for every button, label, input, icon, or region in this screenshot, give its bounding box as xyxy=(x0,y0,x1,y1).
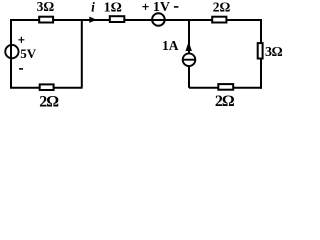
resistor 2Ω (bottom right) xyxy=(218,84,233,90)
wire: right branch vertical (through 3Ω resistor) xyxy=(260,19,262,89)
svg-text:2Ω: 2Ω xyxy=(213,0,231,14)
svg-text:1A: 1A xyxy=(162,38,179,53)
label + of 1V xyxy=(142,4,148,10)
wire: bottom of left loop xyxy=(10,87,83,89)
svg-text:3Ω: 3Ω xyxy=(265,45,283,60)
resistor 3Ω (right branch, vertical) xyxy=(258,43,263,58)
arrow of 1A current source (pointing up) xyxy=(186,42,192,50)
resistor 2Ω (bottom left) xyxy=(40,84,54,90)
wire: right loop left branch vertical (through 1A source) xyxy=(188,20,190,88)
resistor 1Ω xyxy=(110,16,125,22)
wire: middle vertical branch closing left loop xyxy=(81,20,83,88)
svg-text:3Ω: 3Ω xyxy=(37,0,55,14)
current source 1A (circle with bar on right-loop left branch) xyxy=(183,53,196,66)
wire: left branch vertical (through 5V source) xyxy=(10,19,12,89)
resistor 3Ω (top left) xyxy=(39,17,53,23)
label + of 5V xyxy=(18,37,24,43)
wire: top bus from left loop to right loop xyxy=(10,19,262,21)
voltage source 5V (circle on left branch) xyxy=(5,45,18,58)
svg-text:2Ω: 2Ω xyxy=(39,93,59,109)
svg-text:5V: 5V xyxy=(20,46,37,61)
label - of 5V xyxy=(19,68,23,70)
svg-text:2Ω: 2Ω xyxy=(215,93,235,109)
svg-text:1Ω: 1Ω xyxy=(104,0,122,15)
svg-text:i: i xyxy=(91,0,95,15)
current arrow i on top wire xyxy=(90,17,96,22)
resistor 2Ω (top right) xyxy=(212,17,226,23)
label - of 1V xyxy=(174,6,179,8)
voltage source 1V (circle on top wire) xyxy=(152,13,165,26)
svg-text:1V: 1V xyxy=(153,0,170,15)
wire: bottom of right loop xyxy=(189,87,261,89)
